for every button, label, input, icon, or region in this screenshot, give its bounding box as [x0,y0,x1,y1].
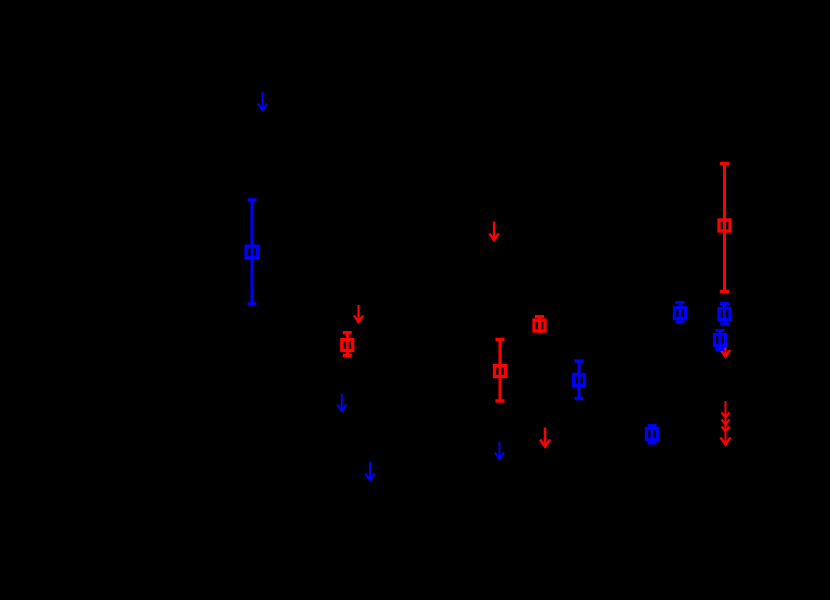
blue errorbar point 7 (short bar) [675,303,686,323]
red upper-limit arrow 2 [354,305,363,322]
blue errorbar point 10 (short bar) [715,331,726,350]
blue upper-limit arrow 6 [495,442,504,459]
red errorbar point 3 [495,340,506,402]
blue upper-limit arrow 1 [258,92,267,110]
red errorbar point 4 (short bar mostly hidden by marker) [534,317,545,334]
blue errorbar point 9 (short bar) [719,304,730,325]
blue errorbar point 5 [574,361,585,399]
blue errorbar point 1 [246,200,258,304]
red errorbar point 2 [342,333,353,356]
blue upper-limit arrow 4 [365,462,374,480]
red stacked upper-limit arrows 9 [721,401,731,445]
red upper-limit arrow 8 (behind blue point 10) [721,339,730,357]
blue errorbar point 6 (short bar mostly hidden) [647,426,658,444]
blue upper-limit arrow 3 [337,394,346,412]
red upper-limit arrow 5 [489,222,498,241]
red upper-limit arrow 7 [540,428,550,447]
red errorbar point 8 (tall) [719,164,730,292]
